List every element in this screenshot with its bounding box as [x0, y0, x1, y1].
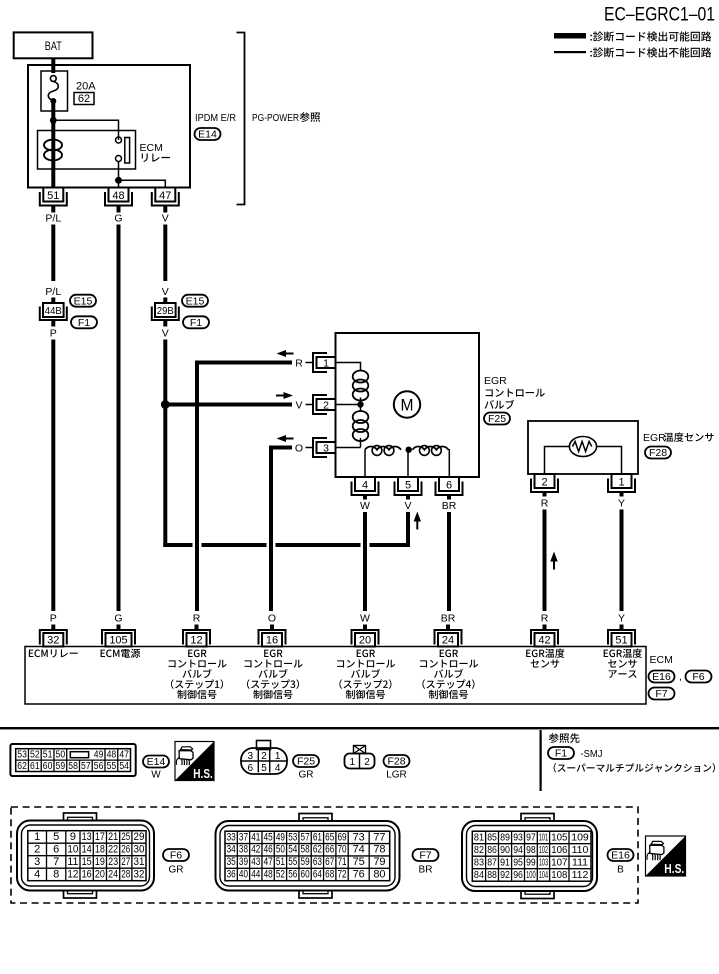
connector ref E14 oval (view) — [143, 756, 169, 769]
svg-text:V: V — [162, 213, 169, 225]
terminal 32 (ECM) — [40, 630, 67, 647]
wire stub 4 — [363, 495, 367, 500]
svg-text:F7: F7 — [419, 850, 431, 862]
label wire G — [114, 213, 122, 225]
svg-text:51: 51 — [615, 635, 627, 647]
svg-text:V: V — [404, 500, 411, 512]
junction fuse output — [50, 117, 57, 124]
svg-text:50: 50 — [276, 844, 285, 856]
label super multiple junction — [554, 763, 715, 772]
connector ref F6 oval — [686, 671, 712, 684]
wire V lower run — [406, 512, 410, 547]
svg-text:48: 48 — [107, 749, 117, 760]
terminal 42 (ECM) — [531, 630, 558, 647]
svg-text:83: 83 — [474, 856, 484, 868]
svg-text:F6: F6 — [692, 671, 704, 683]
stepper coil phase 4-5 — [365, 446, 401, 456]
svg-text:57: 57 — [301, 831, 310, 843]
svg-text:57: 57 — [81, 761, 91, 772]
svg-text:15: 15 — [82, 856, 92, 868]
svg-text:1: 1 — [350, 757, 356, 768]
svg-text:95: 95 — [513, 856, 523, 868]
terminal 2 (EGR valve) — [313, 395, 336, 414]
svg-text:R: R — [193, 613, 201, 625]
svg-text:82: 82 — [474, 844, 484, 856]
wire relay coil to terminal 51 — [51, 169, 55, 188]
svg-text:1: 1 — [323, 357, 329, 369]
svg-text:60: 60 — [301, 868, 310, 880]
wire stub to ECM 42 — [543, 625, 547, 631]
wire V horizontal run seg4 — [370, 543, 411, 547]
inline connector 44B — [40, 303, 67, 320]
svg-text:ECM: ECM — [140, 142, 163, 154]
connector view F7 — [216, 814, 400, 899]
svg-text:P: P — [50, 328, 57, 340]
connector ref F28 oval — [645, 447, 671, 460]
svg-text:GR: GR — [169, 865, 184, 876]
label ECM — [650, 654, 673, 666]
wire V horizontal run seg2 — [202, 543, 267, 547]
svg-text:62: 62 — [17, 761, 27, 772]
svg-text:47: 47 — [264, 856, 273, 868]
connector view E14 (IPDM) — [10, 744, 135, 776]
label F6 color GR — [169, 865, 184, 876]
svg-text:V: V — [295, 400, 302, 412]
svg-text:44: 44 — [251, 868, 260, 880]
svg-text:22: 22 — [108, 843, 118, 855]
svg-text:1: 1 — [618, 477, 624, 489]
svg-text:F28: F28 — [387, 756, 405, 768]
svg-text:27: 27 — [121, 856, 130, 868]
svg-text:2: 2 — [34, 843, 40, 855]
svg-text:EGR: EGR — [484, 375, 507, 387]
label EGR valve step4 signal — [420, 650, 478, 700]
EGR temp sensor box — [528, 421, 638, 474]
svg-text:68: 68 — [325, 868, 334, 880]
H.S. logo (top strip) — [175, 742, 214, 781]
connector view F25 (EGR valve) — [241, 741, 287, 775]
svg-text:105: 105 — [109, 635, 127, 647]
terminal 1 (EGR valve) — [313, 353, 336, 372]
svg-text:31: 31 — [134, 856, 145, 868]
fuse number 62 — [74, 93, 94, 106]
svg-text:Y: Y — [618, 498, 625, 510]
valve inner wire coil to pin3 level — [360, 438, 362, 448]
svg-text:80: 80 — [373, 868, 385, 880]
svg-text:32: 32 — [47, 635, 59, 647]
sensor inner wire left — [545, 447, 570, 475]
svg-text:2: 2 — [364, 757, 370, 768]
svg-text:E16: E16 — [652, 671, 671, 683]
wire R horizontal — [197, 361, 292, 612]
stepper coil phase 5-6 — [412, 446, 448, 456]
label EGR control valve — [484, 375, 545, 409]
svg-text:48: 48 — [264, 868, 273, 880]
svg-text:75: 75 — [353, 856, 365, 868]
arrow flow V up — [414, 512, 421, 530]
svg-text:55: 55 — [107, 761, 117, 772]
wire stub 5 — [406, 495, 410, 500]
svg-text:74: 74 — [353, 844, 365, 856]
svg-text:108: 108 — [551, 869, 567, 881]
wire O horizontal — [271, 446, 292, 612]
svg-text:LGR: LGR — [386, 770, 407, 781]
relay contact — [116, 137, 130, 163]
svg-text:29B: 29B — [157, 305, 174, 317]
terminal 20 (ECM) — [352, 630, 379, 647]
svg-text:43: 43 — [251, 856, 260, 868]
arrow direction V (from ECM) — [276, 392, 293, 399]
terminal 105 (ECM) — [102, 630, 135, 647]
IPDM E/R box — [28, 65, 190, 188]
svg-text:P/L: P/L — [45, 213, 61, 225]
label wire Y (sensor) — [618, 498, 625, 510]
svg-text:H.S.: H.S. — [193, 766, 213, 781]
svg-text:G: G — [114, 213, 122, 225]
label PG-POWER reference — [252, 112, 320, 124]
label ECM relay — [140, 142, 170, 162]
svg-text:20: 20 — [95, 868, 105, 880]
connector ref E16 oval (view) — [608, 849, 634, 862]
wire stub to ECM 12 — [195, 625, 199, 631]
svg-text:54: 54 — [288, 844, 297, 856]
svg-text:112: 112 — [572, 869, 589, 881]
svg-text:4: 4 — [362, 480, 368, 492]
comma separator — [679, 671, 682, 683]
connector ref F25 oval (view) — [293, 755, 319, 768]
svg-text:96: 96 — [513, 869, 523, 881]
label wire V at valve — [295, 400, 302, 412]
wire stub to ECM 51 — [620, 625, 624, 631]
terminal 51 (IPDM) — [40, 188, 67, 206]
svg-text:53: 53 — [288, 831, 297, 843]
svg-text:M: M — [401, 396, 414, 415]
svg-text:51: 51 — [43, 749, 53, 760]
junction V node — [161, 400, 170, 409]
svg-text:E15: E15 — [74, 295, 93, 307]
svg-text:6: 6 — [248, 763, 254, 774]
ECM box — [25, 647, 646, 705]
label wire V (pin5) — [404, 500, 411, 512]
svg-text:111: 111 — [572, 856, 588, 868]
svg-text:58: 58 — [68, 761, 78, 772]
svg-text:29: 29 — [134, 831, 145, 843]
svg-text:110: 110 — [572, 844, 589, 856]
connector view F28 (temp sensor) — [345, 746, 375, 769]
svg-text:98: 98 — [526, 844, 536, 856]
svg-text:H.S.: H.S. — [664, 861, 684, 876]
svg-text:56: 56 — [94, 761, 104, 772]
svg-text:105: 105 — [551, 831, 567, 843]
svg-text:F6: F6 — [170, 850, 182, 862]
svg-text:67: 67 — [325, 856, 334, 868]
wire stub sensor 2 — [543, 492, 547, 497]
wire V horizontal — [165, 403, 292, 407]
svg-text:18: 18 — [95, 843, 105, 855]
svg-text:2: 2 — [323, 399, 329, 411]
wire stub R to pin 1 — [306, 362, 314, 364]
svg-text:58: 58 — [301, 844, 310, 856]
valve inner wire pin4 riser — [364, 450, 366, 477]
svg-text:IPDM E/R: IPDM E/R — [195, 112, 236, 124]
svg-text:4: 4 — [34, 868, 40, 880]
wire stub to ECM 105 — [117, 625, 121, 631]
svg-text:3: 3 — [323, 442, 329, 454]
svg-text:3: 3 — [248, 751, 254, 762]
svg-text:BAT: BAT — [45, 39, 63, 53]
svg-text:84: 84 — [474, 869, 484, 881]
svg-text:109: 109 — [571, 831, 589, 843]
wire BAT to fuse — [51, 58, 55, 73]
label EGR valve step3 signal — [245, 650, 303, 700]
svg-text:89: 89 — [500, 831, 510, 843]
label ECM relay pin — [29, 649, 78, 657]
connector view E16 — [462, 814, 597, 899]
reference divider — [540, 730, 542, 791]
label wire V — [162, 213, 169, 225]
label E14 color W — [151, 770, 161, 781]
svg-text:78: 78 — [373, 844, 385, 856]
terminal 16 (ECM) — [259, 630, 286, 647]
legend thin line (non-detectable circuit) — [554, 51, 586, 53]
label P below 44B — [50, 328, 57, 340]
svg-text:P/L: P/L — [45, 286, 61, 298]
wire Y run — [620, 510, 624, 612]
connector ref F1 oval (reference) — [548, 747, 574, 760]
wire stub sensor 1 — [620, 492, 624, 497]
svg-text:70: 70 — [337, 844, 346, 856]
label wire P/L — [45, 213, 61, 225]
legend label non-detectable — [590, 47, 711, 57]
svg-text:P: P — [50, 613, 57, 625]
wire P/L run — [51, 225, 55, 282]
svg-text:F25: F25 — [297, 756, 315, 768]
label EGR valve step1 signal — [169, 650, 227, 700]
svg-text:W: W — [360, 613, 370, 625]
svg-text:62: 62 — [78, 93, 90, 105]
svg-text:11: 11 — [67, 856, 78, 868]
junction bottom coil node (pin5) — [406, 447, 412, 453]
wire stub 51 — [51, 206, 55, 213]
svg-text:100: 100 — [526, 869, 536, 881]
H.S. logo (harness) — [646, 836, 686, 876]
svg-text:99: 99 — [526, 856, 536, 868]
svg-text:23: 23 — [108, 856, 118, 868]
label -SMJ — [581, 748, 603, 760]
legend thick line (detectable circuit) — [554, 33, 586, 39]
svg-text:48: 48 — [112, 190, 124, 202]
svg-text:44B: 44B — [45, 305, 62, 317]
wire W run — [363, 512, 367, 611]
connector ref E15 oval (left) — [70, 295, 96, 308]
svg-text:F1: F1 — [78, 317, 90, 329]
label wire R at valve — [295, 358, 303, 370]
svg-text:6: 6 — [53, 843, 59, 855]
svg-text:103: 103 — [539, 856, 548, 868]
svg-text:42: 42 — [251, 844, 260, 856]
legend label detectable — [590, 31, 711, 41]
svg-text:4: 4 — [275, 763, 281, 774]
svg-text:77: 77 — [373, 831, 385, 843]
wire stub below 44B — [51, 320, 55, 327]
valve inner wire pin1 to coil — [336, 363, 361, 371]
svg-text:52: 52 — [30, 749, 40, 760]
svg-text:62: 62 — [313, 844, 322, 856]
svg-text:55: 55 — [288, 856, 297, 868]
label wire W at ECM — [360, 613, 370, 625]
svg-text:76: 76 — [353, 868, 365, 880]
separator line — [0, 727, 719, 729]
svg-text:86: 86 — [487, 844, 497, 856]
svg-text:37: 37 — [239, 831, 248, 843]
svg-text:12: 12 — [67, 868, 78, 880]
svg-text:61: 61 — [30, 761, 40, 772]
wire R sensor run — [543, 510, 547, 612]
svg-text:2: 2 — [541, 477, 547, 489]
connector ref E16 oval — [649, 671, 675, 684]
wire P run — [51, 340, 55, 612]
svg-text:97: 97 — [526, 831, 536, 843]
valve inner wire pin5 drop — [407, 450, 409, 477]
svg-text:26: 26 — [121, 843, 130, 855]
svg-text:85: 85 — [487, 831, 497, 843]
svg-text:16: 16 — [82, 868, 92, 880]
svg-text:BR: BR — [441, 613, 456, 625]
label wire BR at ECM — [441, 613, 456, 625]
svg-text:20A: 20A — [76, 81, 96, 93]
svg-text:21: 21 — [108, 831, 118, 843]
label ECM power pin — [101, 649, 141, 658]
svg-text:71: 71 — [337, 856, 346, 868]
stepper coil phase 2-3 — [353, 411, 369, 441]
svg-text:6: 6 — [446, 480, 452, 492]
label wire R (sensor) — [541, 498, 549, 510]
svg-text:8: 8 — [53, 868, 59, 880]
svg-text:65: 65 — [325, 831, 334, 843]
svg-text:GR: GR — [299, 770, 314, 781]
svg-text:91: 91 — [500, 856, 510, 868]
fuse 20A box — [41, 71, 68, 111]
label wire Y at ECM — [618, 613, 625, 625]
inline connector 29B — [152, 303, 179, 320]
connector ref F6 oval (view) — [163, 849, 189, 862]
svg-text:34: 34 — [227, 844, 236, 856]
svg-text:79: 79 — [373, 856, 385, 868]
label EGR temp sensor — [643, 432, 714, 444]
svg-text:28: 28 — [121, 868, 130, 880]
label P/L above 44B — [45, 286, 61, 298]
terminal 1 (temp sensor) — [608, 474, 635, 492]
svg-text:47: 47 — [119, 749, 129, 760]
wire V run — [163, 225, 167, 282]
fuse element — [48, 76, 58, 104]
wire stub 47 — [163, 206, 167, 213]
svg-text:101: 101 — [539, 831, 548, 843]
svg-text:17: 17 — [95, 831, 105, 843]
svg-text:60: 60 — [43, 761, 53, 772]
label wire R at ECM — [193, 613, 201, 625]
bracket PG-POWER — [237, 33, 245, 205]
label EGR temp sensor ground pin — [604, 649, 642, 678]
svg-text:24: 24 — [442, 635, 454, 647]
svg-text:9: 9 — [70, 831, 76, 843]
wire junction to terminal 48 — [118, 180, 120, 187]
terminal 6 (EGR valve) — [436, 477, 463, 495]
label F7 color BR — [419, 865, 433, 876]
svg-text:59: 59 — [301, 856, 310, 868]
svg-text:69: 69 — [337, 831, 346, 843]
wire stub 6 — [447, 495, 451, 500]
connector ref F1 oval (left) — [71, 316, 97, 329]
arrow flow R up — [550, 552, 557, 570]
svg-text:106: 106 — [551, 844, 567, 856]
label wire G at ECM — [114, 613, 122, 625]
connector ref F7 oval — [649, 688, 675, 701]
svg-text:W: W — [151, 770, 161, 781]
svg-text:92: 92 — [500, 869, 510, 881]
svg-text:87: 87 — [487, 856, 497, 868]
svg-text:42: 42 — [538, 635, 550, 647]
svg-text:R: R — [541, 613, 549, 625]
label wire BR — [442, 500, 457, 512]
svg-text:35: 35 — [227, 856, 236, 868]
valve inner wire pin2 — [336, 404, 361, 406]
svg-text:73: 73 — [353, 831, 365, 843]
svg-text:F1: F1 — [190, 317, 202, 329]
svg-text:38: 38 — [239, 844, 248, 856]
label wire O at ECM — [268, 613, 276, 625]
wire V horizontal run seg3 — [276, 543, 361, 547]
svg-text:59: 59 — [56, 761, 66, 772]
svg-text:ECM: ECM — [650, 654, 673, 666]
svg-text:63: 63 — [313, 856, 322, 868]
svg-text:16: 16 — [266, 635, 278, 647]
svg-text:B: B — [617, 865, 624, 876]
terminal 4 (EGR valve) — [352, 477, 379, 495]
wire contact to junction — [118, 162, 120, 181]
connector ref E15 oval (right) — [182, 295, 208, 308]
svg-text:36: 36 — [227, 868, 236, 880]
svg-text:51: 51 — [276, 856, 285, 868]
terminal 48 (IPDM) — [105, 188, 132, 206]
label F25 color GR — [299, 770, 314, 781]
svg-text:41: 41 — [251, 831, 260, 843]
svg-text:E16: E16 — [611, 850, 630, 862]
junction coil node (pin2) — [357, 401, 363, 407]
wire stub to ECM 24 — [446, 625, 450, 631]
svg-text:47: 47 — [159, 190, 171, 202]
wire branch to terminal 47 — [119, 180, 166, 187]
connector ref E14 oval — [195, 128, 221, 141]
EGR control valve box — [336, 333, 480, 477]
connector ref F25 oval — [484, 413, 510, 426]
terminal 47 (IPDM) — [152, 188, 179, 206]
svg-text:R: R — [541, 498, 549, 510]
svg-text:W: W — [360, 500, 370, 512]
terminal 51 (ECM) — [608, 630, 635, 647]
svg-text:5: 5 — [405, 480, 411, 492]
svg-text:5: 5 — [261, 763, 267, 774]
svg-text:E14: E14 — [147, 756, 166, 768]
wire stub O to pin 3 — [306, 447, 314, 449]
svg-text:-SMJ: -SMJ — [581, 748, 603, 760]
terminal 5 (EGR valve) — [395, 477, 422, 495]
wire BR run — [447, 512, 451, 611]
svg-text:3: 3 — [34, 856, 40, 868]
svg-text:14: 14 — [82, 843, 92, 855]
svg-text:33: 33 — [227, 831, 236, 843]
svg-text:52: 52 — [276, 868, 285, 880]
